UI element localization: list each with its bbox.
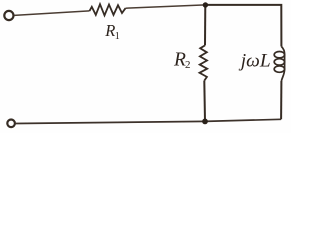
svg-text:R: R (104, 21, 115, 40)
svg-text:2: 2 (185, 59, 191, 71)
svg-text:1: 1 (115, 31, 120, 42)
svg-text:jωL: jωL (238, 50, 271, 71)
